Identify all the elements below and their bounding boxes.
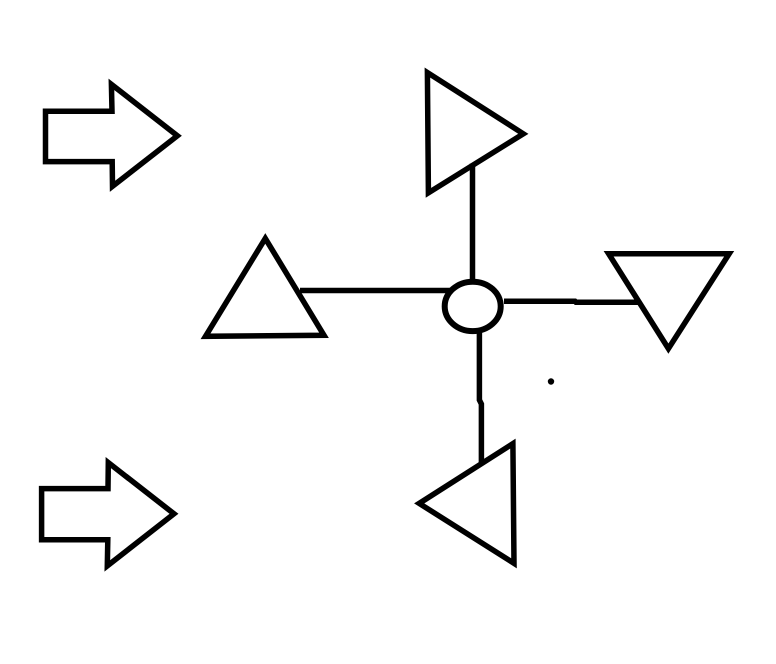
node circle (center) bbox=[445, 282, 501, 331]
wire (right, horizontal) bbox=[504, 301, 641, 302]
dot bbox=[548, 378, 554, 384]
buffer triangle (bottom, pointing left) bbox=[419, 444, 514, 564]
buffer triangle (top, pointing right) bbox=[427, 73, 523, 193]
wire (top, vertical) bbox=[470, 164, 476, 284]
buffer triangle (right, pointing down) bbox=[609, 254, 730, 349]
buffer triangle (left, pointing up) bbox=[206, 238, 325, 336]
arrow (top-left block arrow) bbox=[46, 84, 178, 186]
arrow (bottom-left block arrow) bbox=[42, 463, 174, 566]
wire (left, horizontal) bbox=[300, 288, 450, 294]
wire (bottom, vertical) bbox=[479, 331, 481, 464]
